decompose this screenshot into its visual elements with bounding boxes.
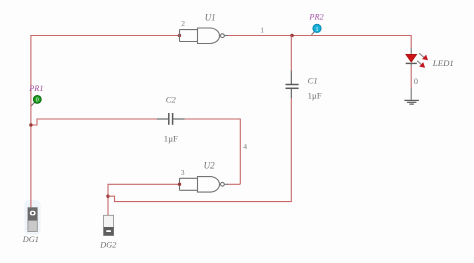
node: junction at U1 input xyxy=(178,34,181,37)
wire: C2 right to U2 output vertical xyxy=(185,119,241,184)
svg-text:LED1: LED1 xyxy=(432,58,454,68)
svg-text:C2: C2 xyxy=(166,95,177,105)
op-amp U1 (NAND gate, inputs tied) xyxy=(180,28,229,44)
capacitor C1 xyxy=(286,71,299,99)
node: junction at U2 input xyxy=(178,183,181,186)
svg-text:1µF: 1µF xyxy=(164,133,178,143)
emission arrow 2 xyxy=(417,61,422,65)
svg-text:PR2: PR2 xyxy=(308,12,323,21)
probe PR1 xyxy=(31,96,41,106)
node: junction on left rail at PR1 xyxy=(29,123,32,126)
svg-text:DG2: DG2 xyxy=(99,241,116,250)
svg-text:1: 1 xyxy=(260,25,264,34)
wire: left rail jog to C2 xyxy=(31,119,157,125)
LED1 xyxy=(406,48,428,68)
svg-text:C1: C1 xyxy=(308,76,318,86)
wire: U2 input to DG2 xyxy=(108,184,180,215)
wire: LED bottom to ground xyxy=(410,66,412,88)
digital constant DG1 xyxy=(28,208,37,232)
wire: C1 top vertical xyxy=(290,36,292,71)
node: junction at C1 top xyxy=(290,34,294,38)
svg-text:0: 0 xyxy=(414,76,418,86)
svg-text:PR1: PR1 xyxy=(28,84,43,93)
wire: U1 output to LED corner xyxy=(227,36,411,49)
wire: DG2 junction jog to C1 bottom xyxy=(108,98,291,202)
svg-text:U1: U1 xyxy=(205,12,216,22)
svg-text:0: 0 xyxy=(36,98,39,104)
DG1 selection halo xyxy=(24,200,40,235)
op-amp U2 (NAND gate, inputs tied) xyxy=(180,177,229,193)
probe PR2 xyxy=(312,24,322,35)
wire: top net from left rail to U1 input xyxy=(31,36,180,208)
svg-text:3: 3 xyxy=(181,168,185,177)
digital constant DG2 xyxy=(104,215,114,235)
capacitor C2 xyxy=(157,113,185,125)
svg-text:4: 4 xyxy=(243,142,247,151)
svg-text:1µF: 1µF xyxy=(308,91,322,101)
svg-text:1: 1 xyxy=(316,27,319,33)
svg-text:U2: U2 xyxy=(204,160,215,170)
ground xyxy=(404,88,419,104)
emission arrow 1 xyxy=(419,53,424,57)
node: junction above DG2 xyxy=(106,195,109,198)
wire: U2 output lead to vertical xyxy=(227,183,240,185)
svg-text:DG1: DG1 xyxy=(22,235,39,244)
svg-text:2: 2 xyxy=(181,19,185,28)
